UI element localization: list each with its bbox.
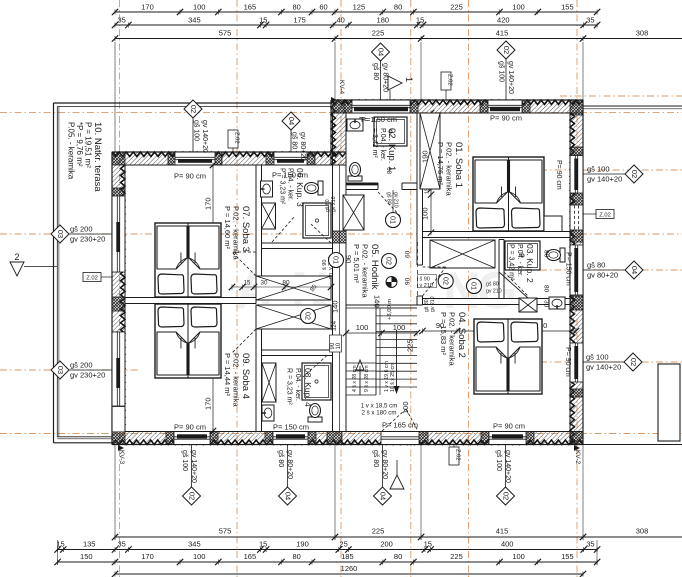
svg-text:gv 80+20: gv 80+20: [587, 271, 618, 280]
svg-text:P.05. - keramika: P.05. - keramika: [67, 122, 76, 180]
svg-text:08. Kup. 4: 08. Kup. 4: [303, 368, 313, 407]
svg-text:225: 225: [372, 29, 385, 38]
wall bath nook: [499, 240, 504, 299]
svg-text:02: 02: [385, 257, 394, 265]
svg-text:gv 210: gv 210: [393, 192, 399, 208]
svg-text:P = 15,83 m²: P = 15,83 m²: [439, 312, 448, 356]
door soba4: [232, 329, 256, 353]
svg-text:185: 185: [341, 552, 354, 561]
shaft soba1: [420, 113, 440, 189]
svg-text:80: 80: [388, 167, 394, 174]
leader left 03 upper: [66, 233, 112, 235]
svg-text:80: 80: [394, 552, 402, 561]
svg-text:04: 04: [630, 266, 639, 274]
svg-text:gš 100: gš 100: [495, 450, 502, 471]
wardrobe soba1/2 zone: [430, 240, 495, 268]
right wall niche dashes: [571, 206, 583, 230]
svg-text:155: 155: [561, 552, 574, 561]
window right 1: [570, 156, 583, 194]
window bottom soba2: [489, 432, 526, 445]
leader top 04: [380, 61, 382, 100]
svg-text:80: 80: [394, 3, 402, 12]
svg-text:P= 90 cm: P= 90 cm: [174, 172, 206, 181]
section marker 1 bottom: [390, 475, 404, 489]
top exterior wall: [331, 100, 583, 113]
svg-text:01: 01: [389, 216, 398, 224]
svg-text:gv 80+20: gv 80+20: [286, 450, 293, 479]
svg-text:15: 15: [424, 540, 432, 549]
svg-text:04: 04: [376, 48, 385, 56]
svg-text:+3,00 m: +3,00 m: [387, 299, 393, 320]
left exterior wall: [112, 152, 125, 445]
svg-text:P = 14,44 m²: P = 14,44 m²: [223, 353, 232, 397]
svg-text:15: 15: [259, 540, 267, 549]
svg-text:07. Soba 3: 07. Soba 3: [240, 206, 251, 252]
svg-text:35: 35: [586, 540, 594, 549]
svg-text:Z.02: Z.02: [86, 275, 98, 281]
svg-text:165: 165: [244, 552, 257, 561]
svg-text:P= 90 cm: P= 90 cm: [555, 160, 562, 190]
svg-text:125: 125: [353, 3, 366, 12]
shaft kup2: [519, 298, 537, 312]
svg-text:90: 90: [329, 273, 335, 279]
svg-text:P= 150 cm: P= 150 cm: [565, 252, 572, 286]
door kup2: [504, 272, 528, 296]
stairwell: [346, 304, 417, 306]
svg-text:gš 200: gš 200: [70, 361, 93, 370]
neighbor walls right: [583, 105, 682, 107]
svg-text:09. Soba 4: 09. Soba 4: [240, 353, 251, 399]
windows bottom wall: [174, 432, 210, 445]
wall kup3 bottom: [262, 243, 333, 249]
wall soba2 top: [423, 299, 571, 305]
svg-text:190: 190: [421, 150, 430, 163]
svg-text:35: 35: [118, 16, 126, 25]
Z.02 top: [441, 72, 451, 90]
middle thick wall column: [331, 100, 346, 165]
section marker 1 top: [388, 76, 402, 90]
extension lines: [334, 42, 336, 100]
svg-text:gv 140+20: gv 140+20: [507, 61, 514, 94]
wall kup02 bottom: [346, 183, 378, 190]
svg-text:170: 170: [204, 197, 213, 210]
svg-text:1 v x 18,5 cm: 1 v x 18,5 cm: [361, 403, 398, 410]
svg-text:2 š x 180 cm: 2 š x 180 cm: [361, 410, 396, 417]
svg-text:225: 225: [450, 3, 463, 12]
svg-text:35: 35: [586, 16, 594, 25]
svg-text:gš 80: gš 80: [277, 450, 284, 467]
svg-text:02: 02: [501, 492, 510, 500]
svg-text:03. Kup. 2: 03. Kup. 2: [525, 244, 535, 283]
kup4 shower: [302, 363, 331, 400]
svg-text:01: 01: [470, 282, 479, 290]
svg-text:25: 25: [339, 540, 347, 549]
door soba2 nook: [499, 272, 528, 298]
svg-text:š 90: š 90: [420, 277, 430, 283]
svg-text:100: 100: [356, 323, 369, 332]
svg-text:100: 100: [393, 323, 406, 332]
svg-text:= 3,42 m²: = 3,42 m²: [371, 128, 378, 158]
door kup02: [378, 192, 400, 216]
svg-text:1: 1: [404, 77, 414, 82]
wall kup4 top: [262, 350, 333, 356]
svg-text:155: 155: [561, 3, 574, 12]
svg-text:165: 165: [244, 3, 257, 12]
kup2 shower: [505, 241, 540, 270]
svg-text:100: 100: [512, 552, 525, 561]
stair treads lower flight: [346, 362, 376, 364]
leader right 02 upper: [583, 173, 625, 175]
svg-text:KV-2: KV-2: [574, 450, 581, 464]
svg-text:10 š x 25 cm: 10 š x 25 cm: [390, 363, 396, 392]
svg-text:60: 60: [319, 3, 327, 12]
svg-text:100: 100: [193, 552, 206, 561]
interior dimension marks: [212, 165, 214, 232]
Z.02 bottom: [449, 447, 459, 465]
top dimension rows: [115, 11, 597, 13]
svg-text:4 š x 28 cm: 4 š x 28 cm: [352, 365, 358, 392]
svg-text:190: 190: [296, 540, 309, 549]
svg-text:gš 80: gš 80: [587, 261, 605, 270]
svg-text:225: 225: [450, 552, 463, 561]
kup4 sink: [262, 405, 274, 421]
svg-text:03: 03: [56, 230, 65, 238]
entrance door swing: [382, 409, 406, 431]
svg-text:gv 230+20: gv 230+20: [70, 371, 105, 380]
door kup3: [311, 224, 331, 243]
svg-text:gv 80+20: gv 80+20: [299, 132, 306, 161]
svg-text:02: 02: [502, 46, 511, 54]
svg-text:P= 165 cm: P= 165 cm: [382, 421, 418, 430]
svg-text:gv 210: gv 210: [331, 196, 337, 212]
svg-text:gv 140+20: gv 140+20: [587, 175, 622, 184]
svg-text:P= 90 cm: P= 90 cm: [564, 347, 571, 377]
window top P150: [352, 100, 410, 113]
kup02 shower: [374, 117, 407, 146]
svg-text:02: 02: [187, 492, 196, 500]
svg-text:05. Hodnik: 05. Hodnik: [369, 244, 380, 290]
svg-text:Z.02: Z.02: [455, 449, 461, 461]
stair treads upper flight: [376, 307, 417, 309]
wall soba3/soba4 divider: [125, 298, 256, 304]
svg-text:80: 80: [543, 285, 550, 293]
bottom exterior wall: [112, 432, 583, 445]
svg-text:gš 80: gš 80: [372, 63, 379, 80]
pier kup3 junction: [333, 231, 347, 243]
svg-text:gv 140+20: gv 140+20: [190, 450, 197, 483]
kup3 shower: [303, 203, 331, 238]
svg-text:gv 140+20: gv 140+20: [586, 363, 621, 372]
svg-text:200: 200: [380, 540, 393, 549]
svg-text:gš 200: gš 200: [70, 225, 93, 234]
svg-text:15: 15: [416, 16, 424, 25]
svg-text:420: 420: [497, 16, 510, 25]
bottom leaders: [191, 445, 193, 487]
leader top-left 02: [192, 118, 194, 152]
svg-text:P= 150 cm: P= 150 cm: [273, 423, 309, 432]
Z.02 right: [596, 210, 614, 219]
svg-text:35: 35: [118, 540, 126, 549]
svg-text:gš 100: gš 100: [181, 450, 188, 471]
svg-text:v 210: v 210: [420, 283, 433, 289]
bed soba2: [474, 319, 542, 394]
nightstand soba1: [544, 216, 562, 232]
bed soba3: [155, 223, 221, 297]
hall/stair dim chain: [346, 332, 417, 334]
svg-text:170: 170: [141, 3, 154, 12]
window top P90: [488, 100, 522, 113]
svg-text:gš 100: gš 100: [498, 61, 505, 82]
svg-text:180: 180: [377, 16, 390, 25]
svg-text:02: 02: [304, 312, 313, 320]
kup4 toilet: [308, 404, 322, 423]
svg-text:gv 140+20: gv 140+20: [504, 450, 511, 483]
door soba1: [423, 267, 447, 296]
svg-text:gš 100: gš 100: [586, 353, 609, 362]
svg-text:60: 60: [405, 250, 412, 258]
svg-text:170: 170: [204, 397, 213, 410]
svg-text:02: 02: [629, 358, 638, 366]
svg-text:P= 90 cm: P= 90 cm: [493, 422, 525, 431]
svg-text:415: 415: [496, 29, 509, 38]
svg-text:P = 5,01 m²: P = 5,01 m²: [352, 244, 361, 283]
svg-text:KV-4: KV-4: [338, 80, 345, 94]
svg-text:gv 80+20: gv 80+20: [382, 63, 389, 92]
niche dims: [232, 286, 331, 288]
window right 3: [570, 343, 583, 382]
svg-text:225: 225: [406, 339, 415, 352]
svg-text:gš 80: gš 80: [372, 450, 379, 467]
leader right 02 lower: [583, 361, 624, 363]
svg-text:40: 40: [337, 16, 345, 25]
svg-text:135: 135: [83, 540, 96, 549]
svg-text:400: 400: [501, 540, 514, 549]
terrace doors left wall: [112, 196, 125, 272]
svg-text:575: 575: [219, 29, 232, 38]
shower kup4 niche: [262, 363, 276, 402]
grid axes: [119, 0, 121, 577]
svg-text:15: 15: [259, 16, 267, 25]
svg-text:P= 90 cm: P= 90 cm: [490, 114, 522, 123]
svg-text:345: 345: [188, 16, 201, 25]
svg-text:140: 140: [373, 295, 382, 308]
kup3 sink: [261, 181, 273, 197]
svg-text:80: 80: [543, 250, 550, 258]
svg-text:gv 80+20: gv 80+20: [381, 450, 388, 479]
svg-text:P = 14,76 m²: P = 14,76 m²: [436, 142, 445, 186]
svg-text:01. Soba 1: 01. Soba 1: [453, 142, 464, 188]
wall soba1 bottom: [423, 232, 571, 238]
kup2 sink: [549, 297, 565, 309]
svg-text:9 š x 28 cm: 9 š x 28 cm: [364, 365, 370, 392]
svg-text:04: 04: [283, 492, 292, 500]
svg-text:575: 575: [219, 527, 232, 536]
bottom dimension rows: [115, 536, 682, 538]
svg-text:30: 30: [261, 280, 268, 287]
stair up arrow: [359, 366, 361, 395]
kup02 sink: [347, 119, 363, 131]
svg-text:415: 415: [496, 527, 509, 536]
svg-text:175: 175: [293, 16, 306, 25]
leader right 04: [583, 269, 625, 271]
svg-text:gv 140+20: gv 140+20: [201, 120, 208, 153]
Z.02 left-top: [228, 130, 238, 148]
svg-text:02: 02: [630, 170, 639, 178]
svg-text:150: 150: [80, 552, 93, 561]
svg-text:04: 04: [287, 117, 296, 125]
svg-text:P = 3,23 m²: P = 3,23 m²: [279, 168, 286, 205]
svg-text:90: 90: [344, 255, 353, 263]
wall above left rooms: [112, 152, 346, 165]
wall stairwell right: [417, 113, 423, 265]
svg-text:P.04. - ker.: P.04. - ker.: [379, 128, 386, 161]
svg-text:gv 210: gv 210: [486, 289, 502, 295]
kup3 wardrobe: [262, 203, 276, 229]
windows wall to terrace (soba3/kup3): [175, 152, 215, 165]
svg-text:225: 225: [372, 527, 385, 536]
svg-text:P= 90 cm: P= 90 cm: [174, 423, 206, 432]
kup3 door swing: [272, 216, 295, 242]
svg-text:P = 3,42 m²: P = 3,42 m²: [508, 244, 515, 281]
leader left 03 lower: [66, 369, 112, 371]
svg-text:04. Soba 2: 04. Soba 2: [456, 312, 467, 358]
door kup4: [303, 356, 327, 378]
svg-text:gš 80: gš 80: [486, 282, 499, 288]
kup02 toilet: [348, 163, 362, 182]
svg-text:P= 150 cm: P= 150 cm: [361, 115, 397, 124]
svg-text:R = 3,23 m²: R = 3,23 m²: [286, 368, 293, 405]
leader top-left 04: [290, 130, 292, 152]
svg-text:gš 100: gš 100: [193, 120, 200, 141]
svg-text:gš 100: gš 100: [587, 165, 610, 174]
entrance door bottom: [381, 432, 419, 445]
kup2 toilet: [547, 248, 566, 262]
svg-text:10: 10: [336, 342, 342, 349]
wardrobe soba3: [256, 276, 331, 300]
svg-text:02. Kup. 1: 02. Kup. 1: [386, 128, 397, 171]
Z.02 left: [83, 273, 101, 282]
svg-text:80: 80: [293, 3, 301, 12]
right exterior wall: [570, 100, 583, 445]
level symbol: [386, 277, 397, 288]
svg-text:1260: 1260: [341, 564, 358, 573]
leader top 02: [505, 59, 507, 100]
svg-text:30: 30: [543, 300, 550, 308]
svg-text:100: 100: [512, 3, 525, 12]
circled door numbers: [329, 253, 344, 268]
hodnik wardrobe: [343, 195, 364, 230]
svg-text:gš 80: gš 80: [386, 192, 392, 205]
svg-text:gv 230+20: gv 230+20: [70, 235, 105, 244]
svg-text:P = 14,60 m²: P = 14,60 m²: [223, 206, 232, 250]
svg-text:04: 04: [378, 492, 387, 500]
svg-text:2: 2: [14, 252, 19, 262]
svg-text:100: 100: [193, 3, 206, 12]
svg-text:15: 15: [244, 281, 251, 287]
door soba3: [232, 252, 256, 276]
window right 2: [570, 245, 583, 295]
svg-text:03: 03: [56, 366, 65, 374]
svg-text:01: 01: [332, 256, 341, 264]
corner piers: [570, 100, 583, 115]
svg-text:80: 80: [293, 552, 301, 561]
svg-text:P.04. - ker.: P.04. - ker.: [294, 368, 301, 401]
bed soba4: [155, 304, 221, 378]
svg-text:06. Kup. 3: 06. Kup. 3: [295, 168, 305, 207]
terrace outline: [54, 102, 332, 104]
svg-text:Z.02: Z.02: [447, 74, 453, 86]
svg-text:80: 80: [282, 280, 290, 287]
svg-text:170: 170: [141, 552, 154, 561]
svg-text:90: 90: [405, 277, 412, 285]
svg-text:Z.02: Z.02: [599, 212, 611, 218]
svg-text:gš 80: gš 80: [291, 132, 298, 149]
svg-text:KV-3: KV-3: [118, 450, 125, 464]
svg-text:P.04. - ker.: P.04. - ker.: [516, 244, 523, 277]
svg-text:308: 308: [636, 29, 649, 38]
kup3 toilet: [305, 181, 324, 195]
svg-text:02: 02: [441, 277, 450, 285]
svg-text:345: 345: [188, 540, 201, 549]
svg-text:10. Natkr. terasa: 10. Natkr. terasa: [92, 122, 103, 192]
svg-text:324: 324: [332, 320, 338, 331]
svg-text:gv 210: gv 210: [430, 296, 436, 312]
bed soba1: [473, 157, 544, 231]
svg-text:140: 140: [331, 300, 340, 313]
svg-text:100: 100: [421, 207, 430, 220]
svg-text:308: 308: [636, 527, 649, 536]
stair down arrow: [396, 330, 398, 388]
wardrobe soba4: [256, 305, 331, 329]
wall left rooms / middle column: [256, 165, 262, 276]
svg-text:P.04. - ker.: P.04. - ker.: [287, 168, 294, 201]
svg-text:Z.02: Z.02: [234, 132, 240, 144]
svg-text:02: 02: [189, 105, 198, 113]
